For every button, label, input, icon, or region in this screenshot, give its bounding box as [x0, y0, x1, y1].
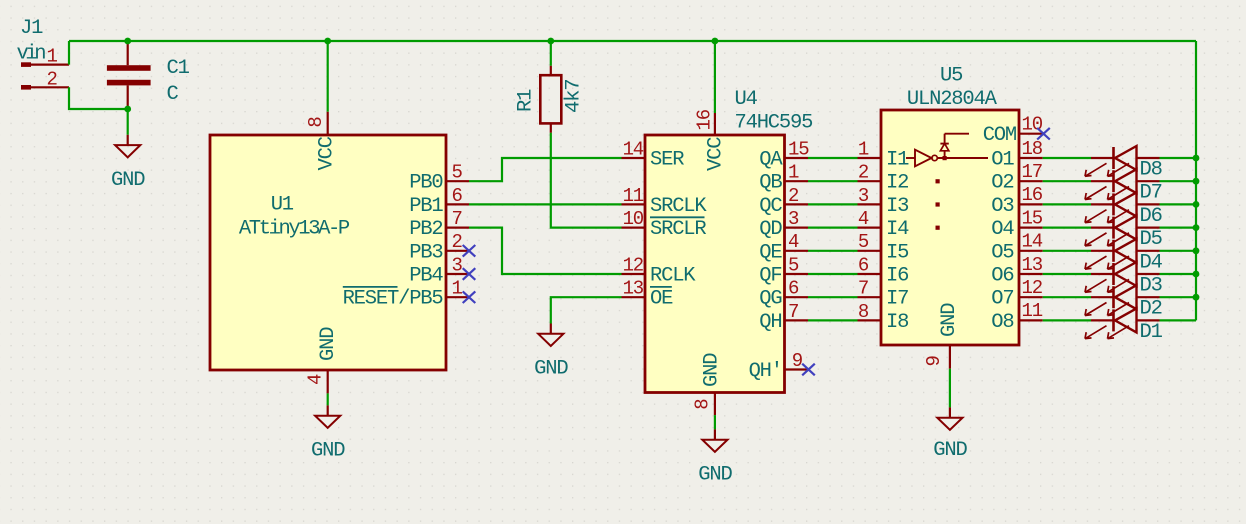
LED D2 emission arrows [1085, 303, 1107, 316]
svg-text:1: 1 [788, 162, 799, 184]
wire O3 to LED D6 [1043, 203, 1091, 205]
U4 pin 2 QC stub [785, 203, 809, 205]
U5 pin 14 O5 stub [1019, 250, 1043, 252]
svg-text:9: 9 [923, 356, 945, 367]
wire LED D2 to rail [1160, 296, 1197, 298]
svg-text:4: 4 [304, 374, 326, 385]
svg-text:GND: GND [311, 440, 345, 463]
wire QG to I7 [808, 296, 858, 298]
U5 clamp diode [944, 151, 946, 156]
U5 repetition dots [936, 179, 940, 183]
U4 pin 1 QB stub [785, 180, 809, 182]
wire VIN top bus [69, 40, 1196, 42]
U1 pin 7 PB2 stub [446, 227, 469, 229]
wire R1 to SRCLR [551, 133, 622, 228]
svg-text:15: 15 [788, 138, 809, 160]
U5 driver buffer [915, 150, 932, 167]
svg-text:VCC: VCC [316, 136, 339, 170]
svg-text:QH': QH' [749, 360, 782, 383]
junction C1 bottom [124, 106, 131, 113]
U1 pin 6 PB1 stub [446, 203, 469, 205]
junction rail row 5 [1193, 224, 1200, 231]
LED D6 [1091, 203, 1114, 205]
svg-text:4: 4 [788, 231, 799, 253]
no-connect U4 QH' [802, 364, 815, 376]
U5 internal junction [943, 156, 947, 160]
svg-text:10: 10 [623, 208, 644, 230]
U4 pin 6 QG stub [785, 296, 809, 298]
svg-text:RESET/PB5: RESET/PB5 [343, 288, 443, 311]
svg-text:8: 8 [691, 399, 713, 410]
svg-text:D3: D3 [1140, 275, 1162, 298]
J1 pin 1 [21, 62, 31, 67]
U1 pin 2 PB3 stub [446, 250, 469, 252]
no-connect U1 PB4 [463, 268, 476, 280]
svg-text:PB4: PB4 [409, 265, 443, 288]
wire QC to I3 [808, 203, 858, 205]
svg-text:QE: QE [759, 241, 782, 264]
wire J1 pin1 to bus [68, 41, 70, 65]
svg-text:O8: O8 [991, 311, 1013, 334]
IC U5 body [881, 110, 1019, 345]
svg-text:10: 10 [1022, 113, 1043, 135]
svg-text:C1: C1 [167, 57, 190, 80]
wire PB1 to SRCLK [469, 203, 622, 205]
svg-text:vin: vin [17, 43, 46, 66]
svg-text:O3: O3 [991, 195, 1013, 218]
svg-text:QA: QA [759, 149, 783, 172]
LED D7 [1091, 180, 1114, 182]
LED D4 [1091, 250, 1114, 252]
svg-text:5: 5 [452, 162, 463, 184]
J1 pin 2 [21, 85, 31, 90]
svg-text:8: 8 [305, 117, 327, 128]
svg-text:3: 3 [452, 254, 463, 276]
svg-text:7: 7 [858, 278, 868, 300]
U4 pin 4 QE stub [785, 250, 809, 252]
svg-text:ATtiny13A-P: ATtiny13A-P [239, 218, 350, 241]
svg-text:9: 9 [792, 350, 803, 372]
junction rail row 2 [1193, 294, 1200, 301]
wire LED D8 to rail [1160, 157, 1197, 159]
svg-text:O2: O2 [991, 172, 1013, 195]
wire QB to I2 [808, 180, 858, 182]
wire U5 GND pin to ground [949, 369, 951, 408]
U4 pin 8 GND [714, 393, 716, 416]
svg-text:7: 7 [788, 301, 798, 323]
wire LED D6 to rail [1160, 203, 1197, 205]
svg-text:12: 12 [623, 254, 644, 276]
svg-text:VCC: VCC [705, 137, 728, 171]
svg-text:O6: O6 [991, 265, 1013, 288]
LED D1 emission arrows [1085, 326, 1107, 339]
U5 pin 8 I8 stub [858, 319, 882, 321]
svg-text:COM: COM [983, 124, 1016, 147]
wire PB2 to RCLK [469, 228, 622, 274]
svg-text:D6: D6 [1140, 205, 1162, 228]
svg-text:I2: I2 [886, 172, 908, 195]
svg-text:I5: I5 [886, 241, 908, 264]
wire C1 bottom to ground [127, 109, 129, 135]
svg-text:SRCLK: SRCLK [650, 195, 707, 218]
svg-text:OE: OE [650, 288, 673, 311]
U5 pin 4 I4 stub [858, 227, 882, 229]
svg-text:RCLK: RCLK [650, 265, 696, 288]
svg-text:6: 6 [858, 254, 869, 276]
svg-text:15: 15 [1022, 207, 1043, 229]
U1 pin 5 PB0 stub [446, 180, 469, 182]
LED D6 emission arrows [1085, 210, 1107, 223]
svg-text:3: 3 [858, 185, 869, 207]
svg-text:I4: I4 [886, 218, 909, 241]
resistor R1 body [540, 75, 561, 123]
junction rail row 8 [1193, 155, 1200, 162]
svg-text:GND: GND [701, 353, 724, 387]
U5 pin 11 O8 stub [1019, 319, 1043, 321]
svg-text:6: 6 [788, 278, 799, 300]
LED D2 [1091, 296, 1114, 298]
U4 pin 7 QH stub [785, 319, 809, 321]
svg-text:2: 2 [858, 162, 869, 184]
junction rail row 4 [1193, 247, 1200, 254]
U4 pin 15 QA stub [785, 157, 809, 159]
IC U1 body [210, 135, 446, 370]
svg-text:O5: O5 [991, 241, 1013, 264]
svg-text:D4: D4 [1140, 251, 1163, 274]
no-connect U1 PB3 [463, 245, 476, 257]
svg-text:QG: QG [759, 288, 782, 311]
wire LED D4 to rail [1160, 250, 1197, 252]
svg-text:GND: GND [317, 327, 340, 361]
svg-text:PB2: PB2 [409, 218, 442, 241]
svg-text:11: 11 [1022, 300, 1043, 322]
U5 pin 16 O3 stub [1019, 203, 1043, 205]
junction R1 at bus [547, 38, 554, 45]
svg-text:11: 11 [623, 185, 644, 207]
svg-text:QD: QD [759, 218, 782, 241]
svg-text:PB1: PB1 [409, 195, 443, 218]
ground under U4 [714, 429, 716, 439]
ground at U4 OE [550, 324, 552, 334]
wire bus to U1 VCC [327, 41, 329, 112]
U5 pin 18 O1 stub [1019, 157, 1043, 159]
U4 SRCLR overline [650, 216, 705, 218]
LED D3 emission arrows [1085, 279, 1107, 292]
wire QD to I4 [808, 227, 858, 229]
svg-text:4k7: 4k7 [563, 80, 586, 113]
U4 pin 11 SRCLK stub [622, 203, 646, 205]
U5 pin 12 O7 stub [1019, 296, 1043, 298]
svg-text:GND: GND [111, 169, 145, 192]
wire O4 to LED D5 [1043, 227, 1091, 229]
svg-text:U5: U5 [940, 65, 962, 88]
svg-text:D7: D7 [1140, 182, 1162, 205]
wire O2 to LED D7 [1043, 180, 1091, 182]
svg-text:U4: U4 [735, 88, 758, 111]
svg-text:I1: I1 [886, 149, 909, 172]
svg-text:GND: GND [698, 464, 732, 487]
svg-text:1: 1 [452, 278, 463, 300]
wire O7 to LED D2 [1043, 296, 1091, 298]
resistor R1 top pin [550, 66, 552, 75]
U4 pin 16 VCC [714, 113, 716, 135]
svg-text:13: 13 [1022, 254, 1043, 276]
junction rail row 6 [1193, 201, 1200, 208]
svg-text:ULN2804A: ULN2804A [907, 88, 998, 111]
svg-text:U1: U1 [271, 194, 294, 217]
U4 pin 13 OE stub [622, 296, 646, 298]
svg-text:QB: QB [759, 172, 782, 195]
svg-text:5: 5 [788, 254, 799, 276]
svg-text:QC: QC [759, 195, 782, 218]
svg-text:D5: D5 [1140, 228, 1162, 251]
ground under C1 [127, 135, 129, 145]
svg-text:14: 14 [1022, 231, 1043, 253]
svg-text:5: 5 [858, 231, 869, 253]
wire VIN right rail [1195, 41, 1197, 320]
svg-text:I6: I6 [886, 265, 908, 288]
svg-text:J1: J1 [20, 17, 43, 40]
svg-text:18: 18 [1022, 138, 1043, 160]
U5 pin 10 COM stub [1019, 133, 1043, 135]
wire J1 pin2 to C1 bottom [69, 87, 128, 109]
U5 pin 1 I1 stub [858, 157, 882, 159]
svg-text:I3: I3 [886, 195, 908, 218]
no-connect U5 COM [1037, 128, 1050, 140]
junction U4 VCC at bus [712, 38, 719, 45]
wire LED D1 to rail [1160, 319, 1197, 321]
junction C1 top [124, 38, 131, 45]
U1 pin 1 RESET/PB5 stub [446, 296, 469, 298]
svg-text:8: 8 [858, 301, 869, 323]
svg-text:4: 4 [858, 208, 869, 230]
svg-text:16: 16 [1022, 184, 1043, 206]
U4 pin 10 SRCLR stub [622, 227, 646, 229]
wire U4 GND pin to ground [714, 415, 716, 429]
svg-text:C: C [167, 83, 179, 106]
IC U4 body [645, 135, 785, 393]
svg-text:I7: I7 [886, 288, 908, 311]
resistor R1 bottom pin [550, 123, 552, 132]
wire LED D3 to rail [1160, 273, 1197, 275]
svg-text:7: 7 [452, 208, 462, 230]
U5 pin 6 I6 stub [858, 273, 882, 275]
svg-text:D1: D1 [1140, 321, 1163, 344]
svg-text:QF: QF [759, 265, 781, 288]
wire O1 to LED D8 [1043, 157, 1091, 159]
LED D8 emission arrows [1085, 163, 1107, 176]
U4 pin 5 QF stub [785, 273, 809, 275]
LED D4 emission arrows [1085, 256, 1107, 269]
svg-text:R1: R1 [515, 89, 538, 112]
svg-text:2: 2 [788, 185, 799, 207]
U4 pin 12 RCLK stub [622, 273, 646, 275]
U1 pin 4 GND [327, 370, 329, 393]
wire bus to U4 VCC [714, 41, 716, 113]
LED D3 [1091, 273, 1114, 275]
U4 OE overline [650, 286, 672, 288]
svg-text:3: 3 [788, 208, 799, 230]
U1 pin 8 VCC [327, 112, 329, 135]
U1 pin 3 PB4 stub [446, 273, 469, 275]
wire O8 to LED D1 [1043, 319, 1091, 321]
svg-text:O1: O1 [991, 149, 1014, 172]
svg-text:2: 2 [452, 231, 463, 253]
U1 RESET overline [343, 286, 398, 288]
wire OE to ground [551, 297, 622, 323]
LED D5 [1091, 227, 1114, 229]
svg-text:12: 12 [1022, 277, 1043, 299]
junction rail row 3 [1193, 271, 1200, 278]
svg-text:D8: D8 [1140, 159, 1162, 182]
svg-text:PB3: PB3 [409, 241, 442, 264]
svg-text:17: 17 [1022, 161, 1042, 183]
U4 pin 9 QH' stub [785, 368, 808, 370]
wire LED D7 to rail [1160, 180, 1197, 182]
wire PB0 to SER [469, 158, 622, 181]
LED D1 [1091, 319, 1114, 321]
U5 pin 9 GND [949, 345, 951, 369]
U5 pin 3 I3 stub [858, 203, 882, 205]
U4 pin 3 QD stub [785, 227, 809, 229]
svg-text:16: 16 [693, 109, 715, 130]
svg-text:GND: GND [933, 439, 967, 462]
capacitor C1 plates [107, 65, 151, 71]
wire U1 GND pin to ground [327, 393, 329, 405]
U5 pin 17 O2 stub [1019, 180, 1043, 182]
junction U1 VCC at bus [324, 38, 331, 45]
LED D8 [1091, 157, 1114, 159]
no-connect U1 PB5 [463, 291, 476, 303]
ground under U5 [949, 407, 951, 417]
U5 pin 5 I5 stub [858, 250, 882, 252]
wire QF to I6 [808, 273, 858, 275]
wire QE to I5 [808, 250, 858, 252]
svg-text:D2: D2 [1140, 298, 1162, 321]
U5 pin 13 O6 stub [1019, 273, 1043, 275]
wire O6 to LED D3 [1043, 273, 1091, 275]
svg-text:SER: SER [650, 149, 684, 172]
svg-text:PB0: PB0 [409, 172, 443, 195]
LED D7 emission arrows [1085, 187, 1107, 200]
U5 pin 2 I2 stub [858, 180, 882, 182]
wire QA to I1 [808, 157, 858, 159]
U4 pin 14 SER stub [622, 157, 646, 159]
svg-text:QH: QH [759, 311, 781, 334]
svg-text:GND: GND [534, 358, 568, 381]
U5 pin 7 I7 stub [858, 296, 882, 298]
LED D5 emission arrows [1085, 233, 1107, 246]
ground under U1 [327, 405, 329, 415]
svg-text:O7: O7 [991, 288, 1013, 311]
svg-text:SRCLR: SRCLR [650, 218, 706, 241]
svg-text:1: 1 [858, 138, 869, 160]
wire bus to R1 [550, 41, 552, 66]
wire O5 to LED D4 [1043, 250, 1091, 252]
svg-text:14: 14 [623, 138, 644, 160]
capacitor C1 top pin [127, 41, 129, 65]
svg-text:GND: GND [938, 303, 961, 337]
svg-text:74HC595: 74HC595 [735, 112, 813, 135]
svg-text:6: 6 [452, 185, 463, 207]
svg-text:O4: O4 [991, 218, 1014, 241]
wire QH to I8 [808, 319, 858, 321]
svg-text:13: 13 [623, 278, 644, 300]
capacitor C1 bottom pin [127, 85, 129, 109]
svg-text:I8: I8 [886, 311, 908, 334]
junction rail row 7 [1193, 178, 1200, 185]
wire LED D5 to rail [1160, 227, 1197, 229]
U5 pin 15 O4 stub [1019, 227, 1043, 229]
